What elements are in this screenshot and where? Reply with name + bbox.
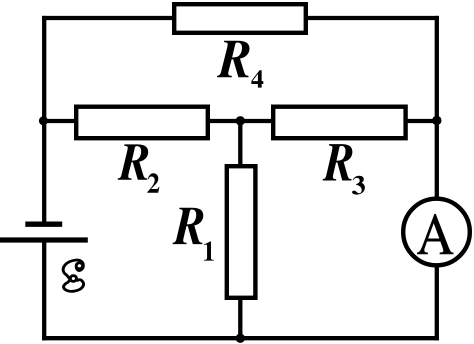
resistor R1 body xyxy=(227,166,256,298)
battery EMF label: script E xyxy=(63,260,84,291)
junction node: right (R3 to ammeter branch) xyxy=(432,116,441,125)
label R1: letter R xyxy=(173,208,204,244)
ammeter A: circle body xyxy=(403,199,470,266)
label R4: letter R xyxy=(217,41,249,77)
label R2: subscript 2 xyxy=(147,173,159,192)
wire: middle horizontal row (through R2 and R3) xyxy=(44,119,437,123)
label R1: subscript 1 xyxy=(204,241,214,260)
resistor R2 body xyxy=(76,107,208,139)
wire: top horizontal xyxy=(42,16,439,20)
wire: right vertical lower (ammeter to bottom) xyxy=(435,264,439,340)
battery cell long plate (positive terminal) xyxy=(0,237,88,242)
label R3: subscript 3 xyxy=(352,176,365,195)
label R4: subscript 4 xyxy=(251,70,263,87)
wire: right vertical upper (top to ammeter) xyxy=(435,16,439,200)
wire: bottom horizontal xyxy=(42,336,439,340)
ammeter A: letter A xyxy=(417,214,453,254)
wire: middle vertical branch (through R1) xyxy=(238,121,242,338)
label R3: letter R xyxy=(323,144,353,180)
resistor R3 body xyxy=(273,107,405,139)
resistor R4 body xyxy=(174,4,306,33)
wire: left vertical lower (battery to bottom) xyxy=(42,240,46,340)
battery cell short plate (negative terminal) xyxy=(25,222,62,227)
junction node: bottom (R1 to bottom wire) xyxy=(236,334,245,343)
junction node: middle (R2/R3/R1) xyxy=(236,116,245,125)
wire: left vertical upper (node to battery) xyxy=(42,16,46,224)
junction node: left (wires to R2 row) xyxy=(39,116,48,125)
label R2: letter R xyxy=(118,144,148,179)
